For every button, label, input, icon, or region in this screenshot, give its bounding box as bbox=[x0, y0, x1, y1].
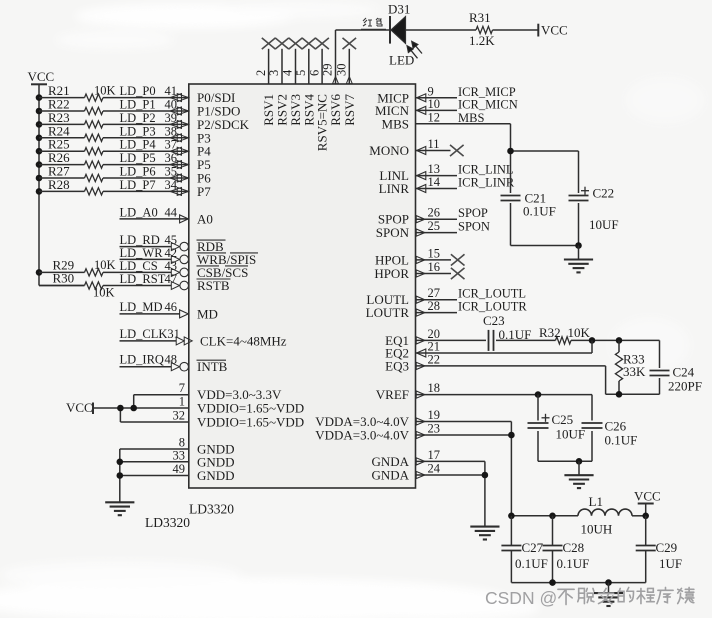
wire LD_P2 to pin 39 bbox=[39, 123, 85, 125]
capacitor C26 bbox=[582, 422, 603, 424]
svg-text:LD_CLK31: LD_CLK31 bbox=[120, 327, 180, 341]
pin 45 arrow with bubble bbox=[171, 243, 179, 251]
svg-text:A0: A0 bbox=[197, 211, 213, 226]
wire VREF bbox=[416, 394, 593, 396]
svg-text:10K: 10K bbox=[94, 258, 116, 272]
capacitor C21 bbox=[501, 195, 521, 197]
svg-text:1UF: 1UF bbox=[659, 556, 682, 571]
svg-text:4: 4 bbox=[281, 69, 295, 76]
pin 30 up arrow bbox=[346, 76, 352, 83]
no-connect X pin 15 bbox=[451, 254, 465, 265]
watermark character 猿 bbox=[678, 587, 694, 603]
svg-text:19: 19 bbox=[428, 408, 441, 422]
wire pin 29 to LED bbox=[335, 30, 337, 84]
wire LD_A0 bbox=[120, 218, 189, 220]
svg-text:12: 12 bbox=[428, 110, 441, 124]
no-connect X pin 5 bbox=[302, 38, 316, 49]
svg-text:30: 30 bbox=[335, 64, 349, 77]
resistor R21 bbox=[85, 94, 104, 101]
svg-text:16: 16 bbox=[428, 260, 441, 274]
wire EQ1 to C23 bbox=[416, 339, 487, 341]
junction dot C25/C26 ground bbox=[576, 458, 583, 465]
svg-text:10: 10 bbox=[428, 97, 441, 111]
resistor R33 bbox=[618, 340, 620, 352]
wire R32 to C24 top bbox=[571, 339, 660, 341]
resistor R28 bbox=[85, 188, 104, 195]
svg-text:VCC: VCC bbox=[66, 400, 93, 415]
wire pin 8 GNDD bbox=[120, 448, 189, 450]
svg-text:23: 23 bbox=[428, 422, 441, 436]
capacitor C23 bbox=[488, 330, 490, 351]
svg-text:32: 32 bbox=[173, 409, 186, 423]
wire LD_P5 to pin 36 bbox=[39, 164, 85, 166]
wire LD_WR bbox=[120, 258, 172, 260]
junction dot C22 ground bbox=[575, 242, 582, 249]
no-connect X pin 2 bbox=[262, 38, 276, 49]
svg-text:1.2K: 1.2K bbox=[469, 33, 495, 48]
svg-text:47: 47 bbox=[165, 272, 178, 286]
svg-text:D31: D31 bbox=[388, 2, 410, 17]
svg-text:10UH: 10UH bbox=[581, 522, 613, 537]
wire LD_IRQ bbox=[120, 366, 172, 368]
svg-text:46: 46 bbox=[165, 300, 178, 314]
wire R31 to VCC bbox=[493, 29, 539, 31]
svg-text:27: 27 bbox=[428, 286, 441, 300]
wire pin 27 ICR_LOUTL bbox=[416, 299, 458, 301]
svg-text:0.1UF: 0.1UF bbox=[605, 433, 638, 448]
svg-text:C24: C24 bbox=[673, 365, 695, 380]
wire pin 13 ICR_LINL bbox=[416, 175, 458, 177]
capacitor C27 bbox=[501, 545, 521, 547]
wire C21/C22 bottoms bbox=[510, 203, 512, 246]
resistor R26 bbox=[85, 161, 104, 168]
svg-text:RSV7: RSV7 bbox=[342, 94, 357, 126]
pin 38 bidirectional arrow bbox=[170, 134, 182, 142]
wire C23 to R32 bbox=[496, 339, 556, 341]
svg-text:C22: C22 bbox=[593, 186, 615, 201]
no-connect X pin 6 bbox=[315, 38, 329, 49]
pin 43 arrow with bubble bbox=[171, 268, 179, 276]
svg-text:LD_P4: LD_P4 bbox=[120, 138, 157, 152]
resistor R31 bbox=[476, 26, 493, 33]
resistor R29 bbox=[85, 269, 104, 276]
capacitor C24 bbox=[650, 370, 670, 372]
svg-text:33K: 33K bbox=[623, 364, 646, 379]
svg-text:7: 7 bbox=[179, 381, 185, 395]
svg-text:INTB: INTB bbox=[197, 359, 228, 374]
wire pin 2 (RSV) bbox=[268, 49, 270, 84]
wire ground stem (C25/C26) bbox=[578, 461, 580, 475]
wire pin 4 (RSV) bbox=[295, 49, 297, 84]
resistor R22 bbox=[85, 107, 104, 114]
junction dots on bottom rail bbox=[549, 579, 556, 586]
svg-text:R32: R32 bbox=[539, 325, 561, 340]
power symbol VCC (top-right) bbox=[537, 24, 539, 37]
svg-text:VDDIO=1.65~VDD: VDDIO=1.65~VDD bbox=[197, 401, 304, 416]
junction dots on EQ1 line bbox=[589, 337, 596, 344]
pin 39 bidirectional arrow bbox=[170, 120, 182, 128]
svg-text:C26: C26 bbox=[605, 419, 627, 434]
svg-text:220PF: 220PF bbox=[668, 379, 702, 394]
wire C25/C26 bottom rail bbox=[538, 460, 592, 462]
svg-text:0.1UF: 0.1UF bbox=[557, 556, 590, 571]
pin 35 bidirectional arrow bbox=[170, 174, 182, 182]
svg-text:1: 1 bbox=[179, 395, 185, 409]
no-connect X pin 11 bbox=[450, 145, 464, 156]
watermark character 序 bbox=[657, 587, 673, 603]
resistor R30 bbox=[85, 282, 104, 289]
svg-text:LD_P7: LD_P7 bbox=[120, 178, 156, 192]
wire pin 25 SPON bbox=[416, 232, 458, 234]
resistor R24 bbox=[85, 134, 104, 141]
svg-text:13: 13 bbox=[428, 162, 441, 176]
wire pin 19 VDDA bbox=[416, 421, 512, 423]
ground (bottom) bbox=[594, 592, 623, 594]
svg-text:LD_CS: LD_CS bbox=[120, 259, 158, 273]
wire LD_CLK31 bbox=[120, 340, 177, 342]
svg-text:6: 6 bbox=[307, 70, 321, 76]
ground (C21/C22) bbox=[564, 258, 593, 260]
pin 41 bidirectional arrow bbox=[170, 94, 182, 102]
ground (GNDA) bbox=[470, 526, 499, 528]
capacitor C28 branch bbox=[552, 516, 554, 546]
wire EQ3 bbox=[416, 365, 606, 367]
svg-text:CLK=4~48MHz: CLK=4~48MHz bbox=[200, 333, 287, 348]
svg-text:LD_WR: LD_WR bbox=[120, 246, 164, 260]
wire pin 15 HPOL bbox=[416, 259, 452, 261]
svg-text:RSV6: RSV6 bbox=[328, 94, 343, 126]
no-connect X pin 16 bbox=[451, 268, 465, 279]
wire pin 17 GNDA bbox=[416, 460, 485, 462]
capacitor C29 bbox=[636, 545, 656, 547]
svg-text:MBS: MBS bbox=[458, 111, 484, 125]
wire pin 14 ICR_LINR bbox=[416, 188, 458, 190]
svg-text:44: 44 bbox=[165, 205, 178, 219]
svg-text:3: 3 bbox=[267, 70, 281, 76]
wire ground stem (bottom) bbox=[608, 583, 610, 594]
resistor R23 bbox=[85, 121, 104, 128]
capacitor C28 bbox=[543, 545, 563, 547]
pin 47 arrow with bubble bbox=[171, 282, 179, 290]
ground (GNDD) bbox=[105, 501, 134, 503]
wire LD_P4 to pin 37 bbox=[39, 150, 85, 152]
svg-text:22: 22 bbox=[428, 352, 441, 366]
pin 44 input arrow bbox=[180, 215, 189, 223]
watermark character 脱 bbox=[578, 588, 594, 603]
watermark character 发 bbox=[599, 588, 614, 603]
svg-text:LD_P2: LD_P2 bbox=[120, 111, 156, 125]
watermark character 的 bbox=[618, 587, 633, 601]
wire LD_CS bbox=[39, 271, 85, 273]
pin CLK double arrow bbox=[176, 337, 184, 345]
svg-text:C25: C25 bbox=[552, 412, 574, 427]
wire pin 3 (RSV) bbox=[281, 49, 283, 84]
wire LD_RD bbox=[120, 246, 172, 248]
LED D31 cathode bar bbox=[389, 16, 391, 44]
svg-text:C23: C23 bbox=[483, 313, 505, 328]
svg-text:29: 29 bbox=[321, 64, 335, 77]
wire ground stem (C21/C22) bbox=[578, 246, 580, 260]
junction dots on top rail bbox=[508, 513, 515, 520]
junction dots on VCC feed bbox=[117, 405, 124, 412]
svg-text:ICR_LOUTL: ICR_LOUTL bbox=[458, 287, 526, 301]
junction dot GNDA bbox=[482, 472, 489, 479]
svg-text:L1: L1 bbox=[589, 494, 603, 509]
svg-text:49: 49 bbox=[173, 462, 186, 476]
svg-text:10K: 10K bbox=[94, 84, 116, 98]
wire LD_P6 to pin 35 bbox=[39, 177, 85, 179]
capacitor C25 bbox=[528, 422, 549, 424]
svg-text:10UF: 10UF bbox=[589, 217, 619, 232]
capacitor C27 branch bbox=[510, 516, 512, 546]
wire LD_MD bbox=[120, 313, 180, 315]
svg-text:HPOR: HPOR bbox=[374, 266, 409, 281]
pin 29 up arrow bbox=[333, 76, 339, 83]
wire top rail L1 net bbox=[511, 515, 578, 517]
svg-text:VREF: VREF bbox=[376, 387, 409, 402]
wire pin 5 (RSV) bbox=[308, 49, 310, 84]
svg-text:R31: R31 bbox=[469, 10, 491, 25]
svg-text:10UF: 10UF bbox=[556, 427, 586, 442]
wire pin 10 ICR_MICN bbox=[416, 109, 458, 111]
watermark character 程 bbox=[637, 588, 654, 603]
svg-text:LD3320: LD3320 bbox=[145, 515, 190, 530]
svg-text:ICR_MICN: ICR_MICN bbox=[458, 97, 518, 111]
svg-text:MONO: MONO bbox=[369, 143, 409, 158]
svg-text:CSDN @: CSDN @ bbox=[485, 588, 557, 608]
svg-text:15: 15 bbox=[428, 246, 441, 260]
wire LD_P7 to pin 34 bbox=[39, 190, 85, 192]
svg-text:R28: R28 bbox=[48, 177, 70, 192]
wire pin 16 HPOR bbox=[416, 273, 452, 275]
svg-text:VCC: VCC bbox=[28, 69, 55, 84]
svg-text:VDDIO=1.65~VDD: VDDIO=1.65~VDD bbox=[197, 415, 304, 430]
svg-text:5: 5 bbox=[294, 70, 308, 76]
wire LD_P3 to pin 38 bbox=[39, 137, 85, 139]
svg-text:10K: 10K bbox=[568, 325, 591, 340]
LED D31 triangle bbox=[391, 17, 406, 44]
pin 46 input arrow bbox=[180, 310, 189, 318]
wire pin 28 ICR_LOUTR bbox=[416, 312, 458, 314]
resistor R32 bbox=[556, 337, 572, 344]
svg-text:P7: P7 bbox=[197, 184, 211, 199]
wire branch to pin 7 bbox=[133, 395, 135, 408]
watermark character 不 bbox=[558, 589, 574, 604]
LED D31 emission arrows bbox=[410, 49, 418, 59]
svg-text:SPON: SPON bbox=[458, 220, 490, 234]
resistor R25 bbox=[85, 148, 104, 155]
svg-text:17: 17 bbox=[428, 448, 441, 462]
wire C26 branch bbox=[591, 395, 593, 421]
junction dots GNDD bbox=[117, 459, 124, 466]
svg-text:LOUTR: LOUTR bbox=[366, 305, 410, 320]
svg-text:VDDA=3.0~4.0V: VDDA=3.0~4.0V bbox=[315, 428, 409, 443]
junction dot VREF/C25 bbox=[535, 391, 542, 398]
svg-text:28: 28 bbox=[428, 299, 441, 313]
wire VCC bus (left) bbox=[38, 84, 40, 285]
wire pin 30 bbox=[348, 49, 350, 84]
wire EQ2 bbox=[416, 352, 593, 354]
junction dot MBS branch bbox=[507, 148, 514, 155]
capacitor C22 bbox=[569, 195, 589, 197]
svg-text:26: 26 bbox=[428, 206, 441, 220]
svg-text:ICR_LOUTR: ICR_LOUTR bbox=[458, 300, 527, 314]
wire pin 26 SPOP bbox=[416, 218, 458, 220]
svg-text:ICR_LINR: ICR_LINR bbox=[458, 176, 515, 190]
wire pin 49 GNDD bbox=[120, 475, 189, 477]
pin 36 bidirectional arrow bbox=[170, 161, 182, 169]
pin 48 arrow with bubble bbox=[171, 363, 179, 371]
IC U1 LD3320 body bbox=[189, 84, 416, 488]
svg-text:C28: C28 bbox=[563, 540, 585, 555]
pin 34 bidirectional arrow bbox=[170, 187, 182, 195]
wire pin 24 GNDA bbox=[416, 474, 485, 476]
no-connect X pin 3 bbox=[275, 38, 289, 49]
wire pin 6 (RSV) bbox=[321, 49, 323, 84]
svg-text:LD_A0: LD_A0 bbox=[120, 205, 158, 219]
wire LD_P1 to pin 40 bbox=[39, 110, 85, 112]
wire LED anode to R31 bbox=[406, 29, 477, 31]
svg-text:SPON: SPON bbox=[376, 225, 410, 240]
svg-text:GNDD: GNDD bbox=[197, 468, 235, 483]
wire C25 branch bbox=[537, 395, 539, 421]
pin 40 bidirectional arrow bbox=[170, 107, 182, 115]
svg-text:RSTB: RSTB bbox=[197, 278, 230, 293]
svg-text:11: 11 bbox=[428, 137, 440, 151]
svg-text:C27: C27 bbox=[522, 540, 544, 555]
svg-text:EQ3: EQ3 bbox=[385, 358, 409, 373]
ground (C25/C26) bbox=[564, 474, 593, 476]
svg-text:LD_P5: LD_P5 bbox=[120, 151, 156, 165]
wire bottom rail bbox=[511, 582, 645, 584]
svg-text:LD_MD: LD_MD bbox=[120, 300, 163, 314]
svg-text:33: 33 bbox=[173, 448, 186, 462]
svg-text:43: 43 bbox=[165, 259, 178, 273]
svg-text:LD_P3: LD_P3 bbox=[120, 124, 156, 138]
wire pin 11 MONO bbox=[416, 150, 451, 152]
no-connect X pin 30 bbox=[343, 38, 357, 49]
wire pin 9 ICR_MICP bbox=[416, 97, 458, 99]
svg-text:MD: MD bbox=[197, 306, 218, 321]
label 红色 (red) bbox=[363, 18, 382, 26]
inductor L1 bbox=[578, 509, 632, 516]
pin 42 arrow with bubble bbox=[171, 255, 179, 263]
svg-text:VCC: VCC bbox=[634, 489, 661, 504]
wire MBS to C21/C22 bbox=[511, 150, 579, 152]
svg-text:VCC: VCC bbox=[541, 23, 568, 38]
resistor R27 bbox=[85, 174, 104, 181]
svg-text:LD_P1: LD_P1 bbox=[120, 98, 156, 112]
svg-text:0.1UF: 0.1UF bbox=[523, 204, 556, 219]
svg-text:LD_P6: LD_P6 bbox=[120, 165, 156, 179]
svg-text:21: 21 bbox=[428, 340, 441, 354]
capacitor C29 branch bbox=[645, 516, 647, 546]
junction dot R33 bottom bbox=[616, 391, 623, 398]
svg-text:LD3320: LD3320 bbox=[189, 502, 234, 517]
junction dot VDDA bbox=[508, 432, 515, 439]
svg-text:LED: LED bbox=[389, 53, 414, 68]
svg-text:LINR: LINR bbox=[379, 181, 410, 196]
wire pin 23 VDDA bbox=[416, 434, 512, 436]
svg-text:ICR_LINL: ICR_LINL bbox=[458, 163, 514, 177]
junction dots on VCC bus bbox=[36, 94, 43, 101]
svg-text:GNDA: GNDA bbox=[371, 468, 409, 483]
wire branch to pin 32 bbox=[119, 408, 121, 422]
wire pin 33 GNDD bbox=[120, 461, 189, 463]
svg-text:14: 14 bbox=[428, 175, 441, 189]
svg-text:LD_RST: LD_RST bbox=[120, 272, 166, 286]
svg-text:2: 2 bbox=[254, 70, 268, 76]
svg-text:R30: R30 bbox=[53, 271, 75, 286]
wire MBS net bbox=[416, 123, 511, 125]
svg-text:0.1UF: 0.1UF bbox=[515, 556, 548, 571]
svg-text:25: 25 bbox=[428, 219, 441, 233]
svg-text:10K: 10K bbox=[93, 286, 115, 300]
svg-text:24: 24 bbox=[428, 462, 441, 476]
svg-text:MBS: MBS bbox=[382, 116, 409, 131]
wire VCC to pin 1 bbox=[93, 407, 189, 409]
svg-text:C29: C29 bbox=[656, 540, 678, 555]
svg-text:LD_IRQ: LD_IRQ bbox=[120, 353, 164, 367]
wire LD_P0 to pin 41 bbox=[39, 97, 85, 99]
svg-text:LD_P0: LD_P0 bbox=[120, 84, 156, 98]
pin 37 bidirectional arrow bbox=[170, 147, 182, 155]
wire LD_RST bbox=[39, 285, 85, 287]
svg-text:18: 18 bbox=[428, 381, 441, 395]
svg-text:SPOP: SPOP bbox=[458, 206, 488, 220]
no-connect X pin 4 bbox=[289, 38, 303, 49]
svg-text:42: 42 bbox=[165, 246, 178, 260]
